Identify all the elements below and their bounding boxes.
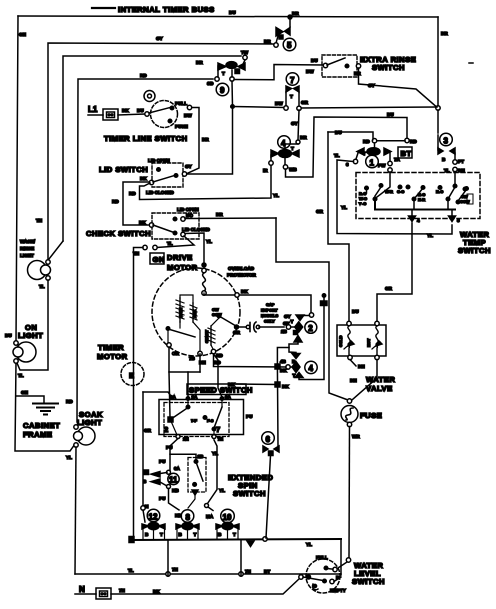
- svg-text:SWITCH: SWITCH: [458, 246, 491, 255]
- timer contact 12: [142, 392, 144, 506]
- svg-text:4: 4: [417, 218, 420, 223]
- svg-text:TL: TL: [18, 373, 24, 378]
- svg-text:KB: KB: [172, 488, 179, 493]
- svg-text:BK: BK: [228, 382, 235, 387]
- svg-text:TL: TL: [39, 284, 45, 289]
- svg-text:WATER: WATER: [366, 375, 395, 384]
- svg-text:W-R: W-R: [385, 189, 393, 194]
- timer cam O symbol: [144, 91, 155, 102]
- svg-text:L1: L1: [88, 105, 98, 114]
- svg-text:BU: BU: [311, 58, 318, 63]
- svg-text:T: T: [363, 151, 366, 156]
- svg-text:BR: BR: [300, 135, 307, 140]
- svg-text:YL: YL: [306, 542, 312, 547]
- svg-text:BU: BU: [5, 333, 12, 338]
- svg-text:BR: BR: [216, 212, 223, 217]
- timer contact 7: [286, 73, 299, 86]
- svg-text:2E: 2E: [183, 437, 189, 442]
- svg-text:WASH/: WASH/: [20, 239, 36, 244]
- svg-text:10: 10: [223, 513, 232, 522]
- svg-text:WB: WB: [289, 167, 297, 172]
- wire: link tap to BK bus: [277, 348, 289, 367]
- svg-text:7-F: 7-F: [191, 418, 198, 423]
- svg-text:RD: RD: [129, 191, 136, 196]
- svg-text:CCW: CCW: [460, 199, 470, 204]
- svg-text:BU: BU: [352, 309, 359, 314]
- svg-text:▼-C: ▼-C: [358, 201, 366, 206]
- svg-text:EMPTY: EMPTY: [330, 588, 346, 593]
- drive motor circle: [152, 268, 240, 356]
- wire: contact9 down + long line to BR junction: [231, 81, 234, 107]
- svg-text:HOT: HOT: [366, 338, 371, 347]
- svg-text:PW: PW: [378, 163, 386, 168]
- timer line switch: [151, 101, 178, 128]
- timer contact 1: [374, 143, 376, 148]
- svg-text:7N: 7N: [245, 569, 252, 574]
- svg-text:GR: GR: [301, 100, 309, 105]
- svg-text:3A: 3A: [225, 395, 232, 400]
- svg-text:YL: YL: [273, 193, 279, 198]
- svg-text:BK: BK: [140, 176, 147, 181]
- svg-text:GY: GY: [284, 314, 291, 319]
- svg-text:GY: GY: [291, 121, 298, 126]
- svg-text:LID OPEN: LID OPEN: [148, 158, 170, 163]
- svg-text:11: 11: [169, 476, 178, 485]
- svg-text:SWITCH: SWITCH: [233, 489, 266, 498]
- svg-text:EXPORT: EXPORT: [261, 308, 278, 313]
- wire: wash light to ON light: [17, 280, 48, 370]
- wire: contact4 output to RD terminal: [286, 117, 408, 177]
- contact group internals: [375, 172, 390, 199]
- svg-text:12: 12: [149, 513, 158, 522]
- svg-text:TN: TN: [133, 251, 140, 256]
- svg-text:BO: BO: [186, 213, 193, 218]
- svg-text:YL: YL: [341, 205, 347, 210]
- svg-text:7A: 7A: [394, 157, 401, 162]
- wire: timer line switch output down to lid switch: [187, 108, 199, 174]
- wire: speed sw exits to extended spin / contact 11: [170, 439, 178, 472]
- svg-text:YL: YL: [206, 239, 212, 244]
- wire: lid switch right terminal to contact9 drop: [187, 107, 233, 175]
- svg-text:BT: BT: [401, 149, 412, 158]
- svg-text:F-S: F-S: [207, 418, 214, 423]
- svg-text:T: T: [291, 146, 294, 151]
- timer contact 4: [278, 136, 291, 149]
- timer contact 4 lower: [292, 362, 300, 373]
- svg-text:BU: BU: [387, 112, 394, 117]
- wire: BK from speed switch to bus: [236, 383, 277, 386]
- svg-text:CABINET: CABINET: [23, 421, 60, 430]
- wire: extra rinse output to BR junction: [359, 68, 437, 107]
- svg-text:8: 8: [186, 513, 191, 522]
- svg-text:BR: BR: [264, 39, 271, 44]
- svg-text:PU: PU: [166, 445, 173, 450]
- svg-text:LID CLOSED: LID CLOSED: [146, 190, 175, 195]
- svg-text:PU: PU: [246, 414, 253, 419]
- svg-text:RD: RD: [410, 139, 417, 144]
- svg-text:BR: BR: [196, 60, 203, 65]
- start capacitor (export): [246, 325, 250, 329]
- svg-text:T: T: [222, 71, 225, 76]
- wire: contact4 lower left: [214, 354, 287, 367]
- wire: border 2 (GY): [48, 43, 273, 260]
- svg-text:T: T: [291, 319, 294, 324]
- svg-text:2B: 2B: [198, 454, 205, 459]
- svg-text:FUSE: FUSE: [360, 411, 382, 420]
- wire: water temp terminal 4 to water valve: [377, 223, 412, 321]
- svg-text:RD: RD: [66, 399, 73, 404]
- svg-text:E: E: [129, 371, 135, 380]
- svg-text:BN: BN: [458, 168, 465, 173]
- svg-text:GR: GR: [144, 428, 152, 433]
- svg-text:COLD: COLD: [338, 336, 343, 347]
- svg-text:LID OPEN: LID OPEN: [177, 207, 199, 212]
- svg-text:RD: RD: [216, 353, 223, 358]
- svg-text:R-C: R-C: [436, 189, 443, 194]
- svg-text:PU: PU: [159, 496, 166, 501]
- svg-text:7E: 7E: [218, 437, 224, 442]
- svg-text:LID SWITCH: LID SWITCH: [99, 165, 148, 174]
- water temp switch: [356, 173, 480, 219]
- svg-text:GY: GY: [368, 83, 375, 88]
- node terminal 5: [451, 210, 453, 216]
- svg-text:GY: GY: [185, 164, 192, 169]
- node BR junction (438,108): [436, 106, 440, 110]
- wire: fuse to water level switch: [348, 427, 351, 559]
- speed switch: [187, 384, 246, 395]
- svg-text:BK: BK: [280, 368, 287, 373]
- svg-text:5: 5: [457, 218, 460, 223]
- svg-text:GN: GN: [21, 390, 29, 395]
- svg-text:BR: BR: [354, 71, 361, 76]
- svg-text:OR: OR: [233, 330, 241, 335]
- svg-text:GY: GY: [156, 36, 163, 41]
- svg-text:CAP: CAP: [266, 302, 275, 307]
- wire: motor to speed switch feeds: [169, 347, 200, 372]
- svg-text:SD: SD: [207, 81, 214, 86]
- wire: check switch NO to right (BR): [185, 217, 276, 220]
- svg-text:4B: 4B: [280, 359, 287, 364]
- svg-text:BN: BN: [358, 364, 365, 369]
- wire: contact1/BU line down to water valve: [328, 132, 349, 321]
- svg-text:VALVE: VALVE: [366, 384, 393, 393]
- timer contact 3: [437, 110, 439, 133]
- wire: contact bottom bus: [131, 539, 341, 540]
- svg-text:BU: BU: [229, 10, 236, 15]
- svg-text:2A: 2A: [192, 395, 199, 400]
- svg-text:7: 7: [290, 76, 295, 85]
- svg-text:RD: RD: [140, 73, 147, 78]
- legend: internal timer buss: [92, 7, 115, 9]
- svg-text:7B: 7B: [189, 356, 196, 361]
- svg-text:TL: TL: [444, 168, 450, 173]
- svg-text:PROTECTOR: PROTECTOR: [227, 273, 256, 278]
- svg-text:BN: BN: [350, 378, 357, 383]
- svg-text:LID CLOSED: LID CLOSED: [182, 227, 211, 232]
- start cap branch: [211, 318, 219, 326]
- wire: right drop to junction BR: [437, 17, 439, 105]
- wire: contact1 left to water temp terminal 5: [337, 160, 452, 234]
- svg-text:RINSE: RINSE: [20, 246, 34, 251]
- svg-text:MODELS: MODELS: [261, 313, 278, 318]
- svg-text:BK: BK: [139, 220, 146, 225]
- svg-text:TL: TL: [128, 568, 134, 573]
- svg-text:RD: RD: [363, 139, 370, 144]
- svg-text:3A: 3A: [174, 466, 181, 471]
- wire: border1 left side down to ON light: [16, 16, 18, 343]
- wire: check switch NO line to fuse: [276, 218, 348, 400]
- svg-text:YL: YL: [219, 488, 225, 493]
- svg-text:TW: TW: [241, 50, 249, 55]
- water level switch: [306, 559, 340, 593]
- svg-text:7N: 7N: [119, 588, 126, 593]
- extra rinse switch: [322, 55, 357, 77]
- svg-text:TN: TN: [36, 218, 43, 223]
- svg-text:BW: BW: [275, 101, 283, 106]
- svg-text:6: 6: [266, 435, 271, 444]
- svg-text:T: T: [160, 532, 163, 537]
- svg-text:BW: BW: [306, 69, 314, 74]
- svg-text:TIMER: TIMER: [98, 343, 124, 352]
- svg-text:YL: YL: [212, 451, 218, 456]
- svg-text:PT: PT: [458, 159, 464, 164]
- timer contact 6: [262, 432, 275, 445]
- wire: valve returns to fuse: [350, 360, 356, 367]
- wire: BK bus vertical down to contact 6: [275, 364, 280, 369]
- wire: check switch aux to timer motor line: [157, 236, 194, 248]
- drive motor label: [150, 253, 164, 264]
- motor bottom terminals: [193, 322, 200, 351]
- wire: check switch NC to drive motor: [185, 233, 204, 264]
- BT box: [398, 147, 412, 158]
- svg-text:YL: YL: [66, 455, 72, 460]
- wire: contact4 lower out to BK line: [299, 296, 324, 380]
- svg-text:FRAME: FRAME: [23, 430, 53, 439]
- svg-text:SWITCH: SWITCH: [372, 63, 405, 72]
- svg-text:1: 1: [370, 159, 375, 168]
- svg-text:YL: YL: [427, 233, 433, 238]
- svg-text:3: 3: [346, 162, 349, 167]
- svg-text:3: 3: [444, 137, 449, 146]
- svg-text:TL: TL: [334, 153, 340, 158]
- svg-text:GR: GR: [316, 209, 324, 214]
- svg-text:2: 2: [308, 324, 313, 333]
- svg-text:RD: RD: [112, 199, 119, 204]
- svg-text:BU: BU: [137, 108, 144, 113]
- wire: top buss L1 line (border 1): [18, 16, 438, 17]
- svg-text:BK: BK: [282, 384, 289, 389]
- svg-text:7N: 7N: [172, 567, 179, 572]
- overload protector: [202, 263, 206, 267]
- extended spin switch: [188, 458, 206, 493]
- small stray mark top right: [469, 62, 473, 64]
- speed switch internal contacts: [168, 417, 173, 422]
- svg-text:OVERLOAD: OVERLOAD: [228, 266, 255, 271]
- svg-text:BK: BK: [241, 289, 248, 294]
- svg-text:BK: BK: [153, 589, 160, 594]
- motor internal switch blade: [166, 327, 170, 331]
- svg-text:T: T: [233, 532, 236, 537]
- ground: cabinet frame: [16, 396, 44, 403]
- node RD terminal: [405, 138, 409, 142]
- svg-text:FULL: FULL: [316, 555, 328, 560]
- svg-text:GN: GN: [153, 255, 165, 264]
- svg-text:T: T: [290, 94, 293, 99]
- svg-text:DRIVE: DRIVE: [167, 253, 193, 262]
- svg-text:2: 2: [164, 425, 169, 434]
- svg-text:WR: WR: [352, 434, 360, 439]
- svg-text:BR: BR: [292, 11, 299, 16]
- svg-text:TL: TL: [167, 241, 173, 246]
- svg-text:MOTOR: MOTOR: [97, 352, 128, 361]
- svg-text:BR: BR: [441, 31, 448, 36]
- wire: contact9 right terminal to extra rinse feed: [234, 65, 323, 80]
- svg-text:BK: BK: [122, 108, 129, 113]
- node terminal 4: [411, 210, 413, 216]
- svg-text:7: 7: [216, 425, 221, 434]
- wire: lower horizontal TL line: [75, 573, 341, 575]
- svg-text:LIGHT: LIGHT: [77, 418, 102, 427]
- svg-text:PU: PU: [159, 459, 166, 464]
- svg-text:H-R: H-R: [418, 197, 425, 202]
- svg-text:4: 4: [309, 364, 314, 373]
- svg-text:ONLY: ONLY: [264, 319, 275, 324]
- L1 plug box: [103, 109, 118, 120]
- timer contact 2: [309, 313, 313, 317]
- svg-text:PUSH: PUSH: [175, 124, 188, 129]
- wire: border 4 (RD) to contact 9: [77, 79, 213, 422]
- svg-text:2B: 2B: [281, 329, 288, 334]
- mechanical link contact2-4: [294, 336, 302, 343]
- svg-text:IR: IR: [263, 168, 268, 173]
- svg-text:INTERNAL TIMER BUSS: INTERNAL TIMER BUSS: [118, 5, 215, 14]
- svg-text:TIMER LINE SWITCH: TIMER LINE SWITCH: [104, 134, 188, 143]
- svg-text:LIGHT: LIGHT: [18, 331, 43, 340]
- svg-text:T: T: [194, 532, 197, 537]
- wire: lid switch common to check switch common: [123, 182, 149, 225]
- wire: border3 diagonal into wash/rinse light top: [49, 241, 63, 259]
- svg-text:BW: BW: [184, 113, 192, 118]
- wire: overload output (BK): [204, 295, 311, 313]
- wire: line from contact4-upper path junction: [328, 132, 373, 139]
- fuse: [347, 399, 351, 403]
- wire: soak light bottom down to neutral line: [75, 447, 76, 574]
- svg-text:BR: BR: [202, 137, 209, 142]
- wire: border1 below ON light to soak light: [15, 362, 75, 451]
- wire: contact 11 out to contact 8: [169, 489, 180, 511]
- timer contact 5: [288, 15, 292, 19]
- svg-text:C-C: C-C: [397, 189, 404, 194]
- svg-text:BT: BT: [264, 569, 270, 574]
- svg-text:OR: OR: [172, 351, 180, 356]
- svg-text:GN: GN: [19, 32, 27, 37]
- svg-text:CHECK SWITCH: CHECK SWITCH: [86, 229, 151, 238]
- svg-text:MA: MA: [206, 514, 214, 519]
- svg-text:GR: GR: [385, 286, 393, 291]
- svg-text:5: 5: [287, 41, 292, 50]
- svg-text:PULL: PULL: [175, 101, 187, 106]
- svg-text:SWITCH: SWITCH: [352, 577, 385, 586]
- svg-text:LIGHT: LIGHT: [20, 253, 34, 258]
- svg-text:N: N: [79, 585, 85, 594]
- water valve: [337, 325, 386, 356]
- svg-text:9: 9: [220, 86, 225, 95]
- wire: border 3: [63, 56, 241, 241]
